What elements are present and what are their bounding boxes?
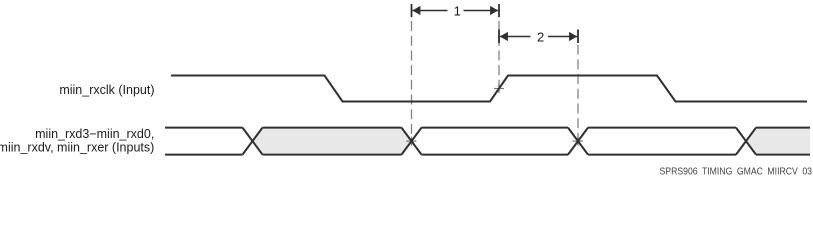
bus crossing 1: [243, 128, 263, 155]
wire: bus bottom rail segment 4: [588, 154, 736, 156]
dimension arrow 1 (setup time): [412, 4, 500, 19]
bus crossing 3: [568, 128, 588, 155]
wire: bus top rail segment 5: [756, 127, 810, 129]
wire: bus bottom rail segment 1: [165, 154, 243, 156]
svg-text:miin_rxd3−miin_rxd0,: miin_rxd3−miin_rxd0,: [35, 127, 154, 141]
bus fill: shaded segment after crossing 4 to right edge: [746, 128, 810, 155]
wire: bus top rail segment 1: [165, 127, 243, 129]
svg-text:1: 1: [454, 4, 461, 19]
svg-text:SPRS906 TIMING GMAC MIIRCV 03: SPRS906 TIMING GMAC MIIRCV 03: [660, 166, 813, 177]
bus crossing 2: [402, 128, 422, 155]
bus fill: shaded invalid segment between crossing 1 and crossing 2: [253, 128, 412, 155]
wire: bus bottom rail segment 5: [756, 154, 810, 156]
measurement tick cross on clock rising edge: [494, 84, 504, 93]
dashed guide line at crossing 3 (x=578): [577, 45, 579, 139]
wire: bus top rail segment 4: [588, 127, 736, 129]
wire: bus top rail segment 3: [422, 127, 569, 129]
measurement tick cross at crossing 2 center: [406, 137, 417, 146]
wire: bus bottom rail segment 2: [263, 154, 402, 156]
dimension arrow 2 (hold time): [499, 30, 578, 45]
svg-text:miin_rxclk (Input): miin_rxclk (Input): [59, 83, 154, 97]
dashed guide line at crossing 2 (x=411.5): [411, 21, 413, 139]
wire: miin_rxclk waveform: [171, 76, 807, 102]
bus crossing 4: [736, 128, 756, 155]
wire: bus top rail segment 2: [263, 127, 402, 129]
measurement tick cross at crossing 3 center: [573, 137, 584, 146]
svg-text:miin_rxdv, miin_rxer (Inputs): miin_rxdv, miin_rxer (Inputs): [0, 140, 154, 154]
svg-text:2: 2: [537, 30, 544, 45]
dashed guide line at clock rising edge (x=499): [498, 21, 500, 87]
wire: bus bottom rail segment 3: [422, 154, 569, 156]
